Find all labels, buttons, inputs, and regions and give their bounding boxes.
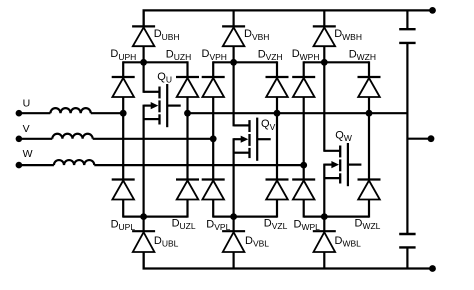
wire D_UBL leads: [143, 217, 145, 232]
diode D_VPH: [202, 77, 225, 97]
wire D_UZL leads: [186, 113, 188, 179]
wire D_VZH leads: [276, 61, 278, 77]
terminal midpoint M: [428, 135, 435, 142]
terminal DC+: [429, 7, 436, 14]
wire midpoint terminal stub: [407, 138, 429, 140]
diode D_UBL: [132, 231, 155, 252]
wire D_UPL leads: [122, 113, 124, 179]
diode D_UZH: [176, 77, 199, 97]
wire top segment phase V: [213, 61, 277, 63]
diode D_VPL: [202, 180, 225, 200]
transistor Q_V: [234, 118, 271, 161]
diode D_UPL: [112, 180, 135, 200]
wire D_UBH leads: [143, 10, 145, 26]
wire Q_W drain: [323, 62, 325, 152]
junction dot VZ midpoint: [274, 110, 281, 117]
junction dot U top: [140, 59, 147, 66]
wire U phase left: [19, 112, 51, 114]
wire D_VBL leads: [233, 217, 235, 232]
wire D_WPL leads: [303, 165, 305, 179]
diode D_VZL: [266, 180, 289, 200]
wire Q_U source: [143, 105, 145, 217]
capacitor C1 (upper DC-link): [399, 29, 415, 43]
wire DC- rail: [144, 252, 432, 269]
diode D_UBH: [132, 26, 155, 46]
wire Q_V drain: [233, 62, 235, 126]
transistor Q_U: [144, 84, 181, 127]
wire D_VPL leads: [212, 139, 214, 180]
inductor LU: [50, 108, 90, 113]
wire DC+ rail: [144, 10, 432, 26]
wire Q_U drain: [143, 62, 145, 93]
wire top segment phase U: [123, 61, 187, 63]
wire D_WZL leads: [368, 113, 370, 179]
junction dot W top: [321, 59, 328, 66]
wire capacitor column middle: [406, 44, 408, 233]
wire D_WBL leads: [323, 217, 325, 232]
wire D_VZL leads: [276, 113, 278, 179]
diode D_WBL: [313, 231, 336, 252]
diode D_WPL: [292, 180, 315, 200]
diode D_VBH: [222, 26, 245, 46]
wire bottom segment phase U: [123, 216, 187, 218]
svg-text:V: V: [23, 123, 30, 135]
wire midpoint M line: [188, 112, 408, 114]
terminal DC-: [429, 265, 436, 272]
wire V phase right: [93, 138, 214, 140]
diode D_WZH: [358, 77, 381, 97]
junction dot V bottom: [230, 213, 237, 220]
wire W phase right: [94, 164, 303, 166]
junction node V: [210, 135, 217, 142]
wire D_UZH leads: [186, 61, 188, 77]
wire capacitor column top: [406, 10, 408, 28]
capacitor C2 (lower DC-link): [399, 234, 415, 247]
wire D_VBH leads: [233, 10, 235, 26]
wire bottom segment phase W: [304, 216, 369, 218]
wire D_WBH leads: [323, 10, 325, 26]
wire D_WZH leads: [368, 61, 370, 77]
diode D_WBH: [313, 26, 336, 46]
junction node U: [120, 110, 127, 117]
diode D_WPH: [292, 77, 315, 97]
wire D_WPH leads: [303, 61, 305, 77]
junction dot W bottom: [321, 213, 328, 220]
junction dot WZ midpoint: [366, 110, 373, 117]
svg-text:W: W: [23, 148, 33, 160]
wire D_VPH leads: [212, 61, 214, 77]
wire U phase right: [91, 112, 123, 114]
wire V phase left: [19, 138, 52, 140]
junction dot U bottom: [140, 213, 147, 220]
wire Q_W source: [323, 164, 325, 217]
wire capacitor column bottom: [406, 248, 408, 268]
inductor LW: [54, 160, 94, 165]
wire bottom segment phase V: [213, 216, 277, 218]
diode D_UPH: [112, 77, 135, 97]
wire Q_V source: [233, 138, 235, 216]
terminal V input: [16, 136, 23, 143]
inductor LV: [52, 134, 92, 139]
diode D_UZL: [176, 180, 199, 200]
terminal U input: [16, 110, 23, 117]
transistor Q_W: [324, 143, 361, 186]
terminal W input: [16, 162, 23, 169]
diode D_VBL: [222, 231, 245, 252]
diode D_VZH: [266, 77, 289, 97]
wire top segment phase W: [304, 61, 369, 63]
junction node W: [300, 162, 307, 169]
diode D_WZL: [358, 180, 381, 200]
junction dot UZ midpoint: [184, 110, 191, 117]
wire W phase left: [19, 164, 54, 166]
wire D_UPH leads: [122, 61, 124, 77]
junction dot V top: [230, 59, 237, 66]
svg-text:U: U: [23, 97, 31, 109]
